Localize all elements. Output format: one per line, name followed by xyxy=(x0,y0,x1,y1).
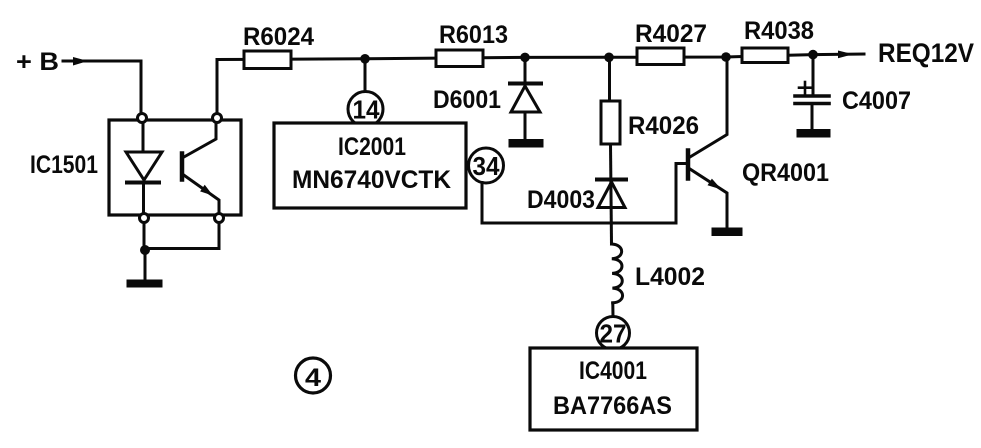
svg-text:27: 27 xyxy=(600,319,627,349)
svg-text:14: 14 xyxy=(353,95,381,125)
diode D4003 xyxy=(597,180,626,208)
resistor R4026 xyxy=(608,59,611,101)
svg-text:IC1501: IC1501 xyxy=(30,151,98,179)
node junction dot Q collector xyxy=(721,52,731,62)
resistor R4038 xyxy=(742,48,788,63)
wire bus to pin 14 xyxy=(364,60,367,92)
pin 34 circle xyxy=(469,148,504,183)
op-amp U2 IC4001 box xyxy=(530,348,697,430)
resistor R4027 xyxy=(637,48,684,65)
pin terminal top-right xyxy=(213,114,222,123)
wire IC1501 bottom-right to junction xyxy=(147,223,219,249)
wire to ground xyxy=(144,250,147,281)
wire L4002 to pin 27 xyxy=(611,303,614,317)
resistor R6024 xyxy=(244,51,291,69)
svg-text:QR4001: QR4001 xyxy=(742,159,829,187)
svg-text:BA7766AS: BA7766AS xyxy=(553,392,672,420)
capacitor C4007 xyxy=(795,56,829,131)
node junction dot under IC1501 xyxy=(140,245,150,255)
resistor R6013 xyxy=(436,50,483,67)
pin terminal top-left xyxy=(138,114,147,123)
svg-text:IC2001: IC2001 xyxy=(338,133,406,161)
svg-text:MN6740VCTK: MN6740VCTK xyxy=(292,166,451,194)
node output arrowhead xyxy=(838,51,853,59)
ground under D6001 xyxy=(510,141,542,147)
transistor QR4001 xyxy=(688,59,727,229)
svg-text:4: 4 xyxy=(305,364,321,392)
svg-text:L4002: L4002 xyxy=(635,263,705,291)
pin terminal bottom-left xyxy=(140,214,149,223)
op-amp U1 IC2001 box xyxy=(274,123,466,208)
svg-text:R4038: R4038 xyxy=(744,17,814,45)
wire +B to corner xyxy=(63,61,141,114)
svg-text:R4027: R4027 xyxy=(635,20,707,48)
node junction dot C4007 xyxy=(808,50,818,60)
node sheet number 4 xyxy=(296,358,331,393)
wire pin 34 to transistor base xyxy=(482,164,686,224)
optocoupler IC1501 xyxy=(109,120,241,215)
node junction dot pin14 xyxy=(360,54,370,64)
ground under C4007 xyxy=(798,131,829,137)
svg-text:R4026: R4026 xyxy=(628,112,699,140)
diode LED inside IC1501 xyxy=(126,123,162,214)
wire R4026 to D4003 and L4002 xyxy=(611,144,612,244)
pin terminal bottom-right xyxy=(215,214,224,223)
svg-text:R6024: R6024 xyxy=(243,23,314,51)
node junction dot D6001 xyxy=(520,53,530,63)
pin 14 circle xyxy=(348,92,383,127)
svg-text:IC4001: IC4001 xyxy=(579,357,647,385)
ground under IC1501 xyxy=(128,281,161,286)
svg-text:34: 34 xyxy=(473,151,501,181)
+B arrowhead xyxy=(73,57,88,66)
transistor phototransistor inside IC1501 xyxy=(182,123,219,214)
wire IC1501 bottom-left to junction xyxy=(143,223,146,251)
svg-text:REQ12V: REQ12V xyxy=(878,38,974,68)
svg-text:D4003: D4003 xyxy=(527,186,595,214)
pin 27 circle xyxy=(597,317,630,350)
ground under QR4001 xyxy=(713,229,741,235)
svg-text:+ B: + B xyxy=(16,48,59,76)
node junction dot R4026 xyxy=(604,53,614,63)
svg-text:C4007: C4007 xyxy=(842,87,911,115)
inductor L4002 xyxy=(612,244,623,303)
svg-text:R6013: R6013 xyxy=(439,21,508,49)
svg-text:D6001: D6001 xyxy=(433,86,501,114)
wire main bus xyxy=(217,54,864,60)
wire riser from IC1501 to bus xyxy=(216,60,219,115)
diode D6001 xyxy=(510,59,541,141)
